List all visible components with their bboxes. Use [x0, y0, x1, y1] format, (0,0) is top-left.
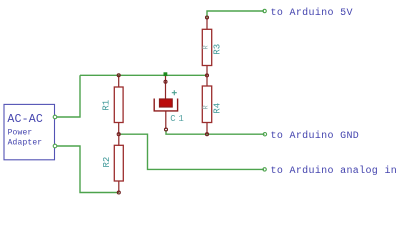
svg-text:AC-AC: AC-AC: [7, 113, 43, 126]
wire: top rail: [80, 74, 207, 76]
wire: 5V stub: [207, 11, 264, 18]
svg-text:C1: C1: [170, 114, 186, 124]
resistor R3: [202, 16, 222, 77]
wire: adapter pin2 to R2 bottom: [55, 146, 119, 193]
svg-text:to Arduino GND: to Arduino GND: [271, 130, 360, 142]
svg-text:to Arduino analog in: to Arduino analog in: [271, 165, 398, 177]
svg-text:Power: Power: [8, 129, 33, 138]
node: 5V wire end: [263, 9, 266, 12]
node: analog wire end: [263, 168, 266, 171]
node: GND wire end: [263, 133, 266, 136]
junction: C1 tap on top rail: [164, 72, 168, 76]
wire: C1 bottom to GND rail: [166, 130, 265, 134]
resistor R2: [102, 134, 123, 194]
svg-text:R3: R3: [212, 44, 222, 55]
wire: adapter pin1 to top rail: [55, 75, 80, 117]
wire: divider tap to analog in: [119, 134, 264, 169]
capacitor C1: [154, 76, 186, 131]
svg-text:R2: R2: [102, 157, 112, 168]
power adapter X1 (AC-AC): [4, 104, 57, 159]
svg-text:R1: R1: [102, 100, 112, 111]
svg-text:R4: R4: [212, 103, 222, 114]
resistor R4: [202, 75, 222, 135]
svg-text:Adapter: Adapter: [8, 139, 43, 148]
svg-text:to Arduino 5V: to Arduino 5V: [271, 7, 353, 19]
resistor R1: [102, 74, 124, 136]
